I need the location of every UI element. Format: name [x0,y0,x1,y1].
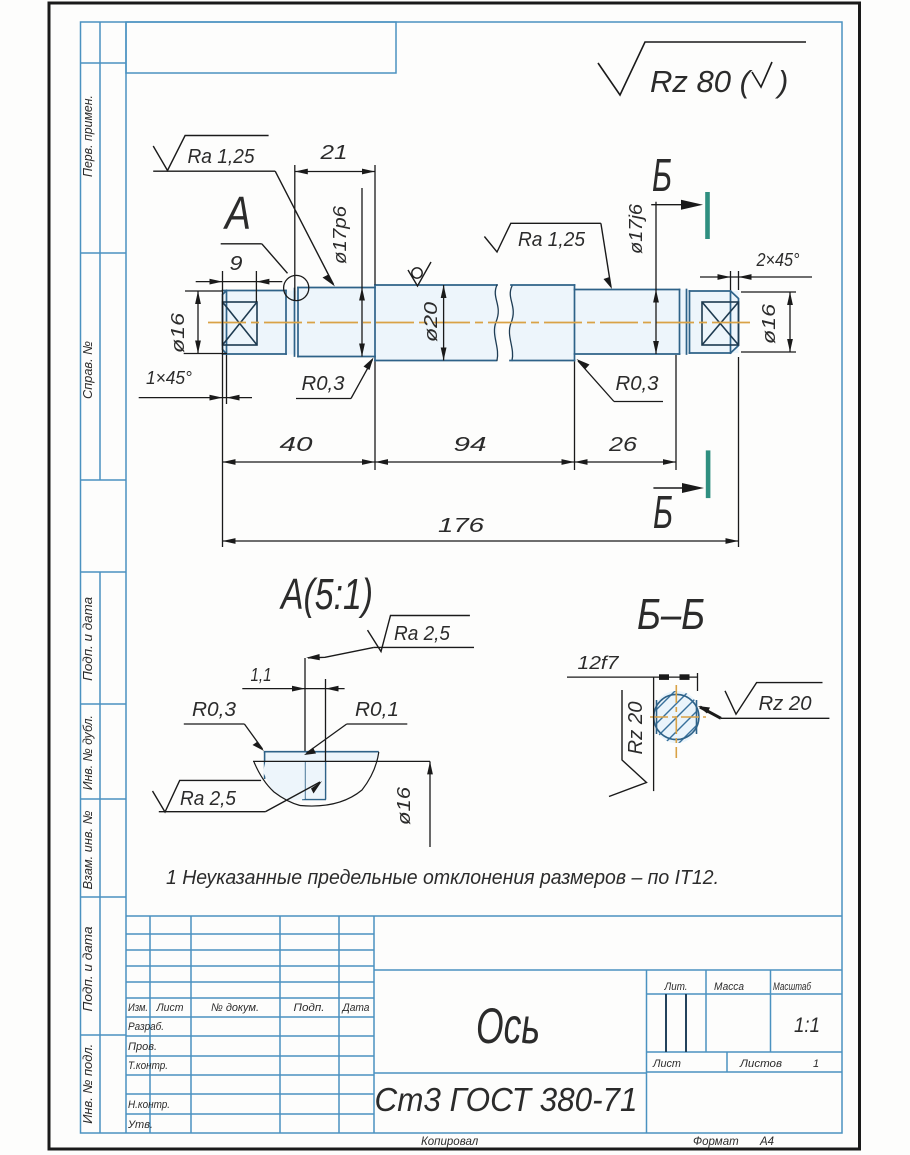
svg-text:Изм.: Изм. [128,1002,148,1014]
svg-text:ø16: ø16 [394,786,414,825]
svg-text:R0,3: R0,3 [616,373,659,395]
svg-text:Разраб.: Разраб. [128,1021,164,1033]
svg-text:ø16: ø16 [168,312,188,353]
svg-text:ø17p6: ø17p6 [330,205,350,264]
svg-text:А4: А4 [759,1136,774,1148]
svg-text:Ra 1,25: Ra 1,25 [188,146,256,168]
svg-text:R0,1: R0,1 [355,699,399,721]
svg-text:Лист: Лист [652,1058,681,1070]
svg-text:94: 94 [454,434,487,456]
svg-text:Н.контр.: Н.контр. [128,1099,170,1111]
svg-text:Копировал: Копировал [421,1136,479,1148]
svg-text:Ст3 ГОСТ 380-71: Ст3 ГОСТ 380-71 [375,1081,638,1118]
svg-text:Инв. № дубл.: Инв. № дубл. [80,715,95,790]
svg-text:Лист: Лист [156,1002,184,1014]
svg-text:1 Неуказанные предельные откло: 1 Неуказанные предельные отклонения разм… [166,867,719,889]
svg-text:Ra 2,5: Ra 2,5 [394,623,451,645]
svg-text:Перв. примен.: Перв. примен. [80,95,95,177]
svg-text:Ось: Ось [476,998,540,1054]
svg-text:2×45°: 2×45° [756,250,800,270]
svg-text:Rz 20: Rz 20 [625,702,647,755]
svg-text:40: 40 [280,434,313,456]
svg-text:Лит.: Лит. [664,981,688,993]
svg-text:9: 9 [230,253,243,275]
svg-text:Rz 80 (: Rz 80 ( [650,64,753,99]
svg-text:176: 176 [438,515,485,537]
svg-text:Масштаб: Масштаб [773,981,812,993]
svg-text:Ra 2,5: Ra 2,5 [180,788,237,810]
svg-text:Т.контр.: Т.контр. [128,1060,168,1072]
svg-text:Инв. № подл.: Инв. № подл. [80,1044,95,1124]
svg-text:ø17j6: ø17j6 [626,203,646,254]
svg-text:R0,3: R0,3 [302,373,345,395]
svg-text:Б: Б [652,149,672,201]
svg-text:№ докум.: № докум. [211,1002,259,1014]
svg-text:1:1: 1:1 [794,1014,820,1037]
svg-text:12f7: 12f7 [578,653,620,673]
svg-text:Подп. и дата: Подп. и дата [80,597,95,681]
svg-text:21: 21 [319,142,347,164]
svg-text:Листов: Листов [739,1058,782,1070]
svg-text:Б: Б [653,486,673,538]
svg-text:Rz 20: Rz 20 [759,693,812,715]
svg-text:ø20: ø20 [421,302,441,342]
svg-text:Масса: Масса [714,981,744,993]
svg-text:1: 1 [813,1058,819,1070]
svg-text:Справ. №: Справ. № [80,341,95,399]
svg-text:26: 26 [608,434,638,456]
svg-text:Пров.: Пров. [128,1041,157,1053]
svg-text:Подп. и дата: Подп. и дата [80,927,95,1012]
svg-text:Формат: Формат [693,1136,739,1148]
svg-text:Б–Б: Б–Б [637,590,705,639]
svg-text:1×45°: 1×45° [146,368,192,388]
svg-text:А: А [222,187,251,239]
svg-text:Ra 1,25: Ra 1,25 [518,229,586,251]
svg-text:Подп.: Подп. [294,1002,325,1014]
svg-text:Дата: Дата [341,1002,370,1014]
svg-text:Взам. инв. №: Взам. инв. № [80,811,95,890]
svg-text:А(5:1): А(5:1) [279,570,373,619]
svg-text:1,1: 1,1 [251,665,272,685]
svg-text:ø16: ø16 [759,303,779,344]
svg-text:R0,3: R0,3 [192,699,236,721]
svg-text:Утв.: Утв. [127,1119,153,1131]
